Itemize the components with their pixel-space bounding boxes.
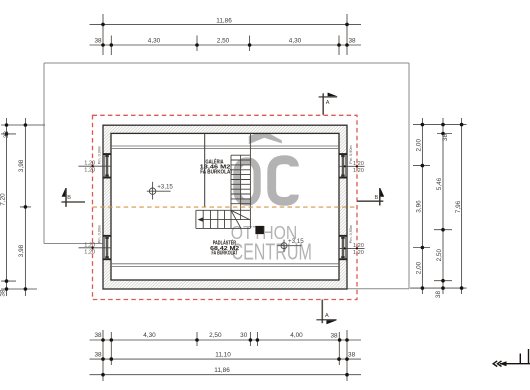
level mark padlaster (277, 240, 301, 252)
svg-text:A: A (325, 313, 329, 319)
svg-text:+3,15: +3,15 (288, 238, 304, 245)
dimension dots top (101, 23, 349, 47)
stair winder fan lines (231, 210, 250, 228)
svg-text:2,00: 2,00 (415, 261, 422, 274)
svg-text:1,20: 1,20 (353, 243, 364, 249)
svg-text:1,20: 1,20 (84, 243, 95, 249)
dimension texts bottom (94, 332, 355, 374)
svg-text:7,20: 7,20 (0, 193, 6, 206)
svg-text:Pm. 0,90m: Pm. 0,90m (98, 146, 102, 164)
ground floor outline bottom-left notch edge (44, 243, 104, 245)
stair lower flight left end (195, 210, 197, 228)
wall window openings white (102, 153, 347, 260)
svg-text:1,20: 1,20 (353, 250, 364, 256)
room label galeria (200, 157, 234, 175)
section marker A bottom (316, 300, 336, 325)
window right wall upper (339, 153, 347, 178)
dimension dots right (421, 123, 464, 290)
top dim chain line (90, 44, 362, 46)
stair bottom edge (196, 227, 251, 229)
svg-text:1,20: 1,20 (84, 249, 95, 255)
svg-text:B: B (67, 195, 71, 201)
bottom dim total line (90, 374, 362, 376)
room label padlaster (210, 238, 239, 256)
stair walking line vertical (240, 155, 242, 219)
svg-text:38: 38 (348, 37, 356, 44)
utility arrowhead (499, 361, 506, 366)
svg-text:38: 38 (94, 37, 102, 44)
window dim left upper (79, 161, 112, 174)
top extension verticals (103, 14, 347, 55)
stair winder top edge (196, 209, 251, 211)
svg-text:38: 38 (94, 351, 102, 358)
svg-text:11,86: 11,86 (214, 367, 230, 374)
headroom line top pair (111, 146, 339, 148)
svg-text:2,50: 2,50 (209, 332, 222, 339)
section marker A top (319, 93, 338, 115)
svg-text:38: 38 (348, 351, 356, 358)
svg-text:11,86: 11,86 (216, 18, 232, 25)
stair upper flight right stringer (249, 133, 251, 228)
svg-text:A: A (326, 100, 330, 106)
stair walking line horizontal (200, 219, 251, 221)
window left wall lower (103, 235, 111, 260)
svg-text:5,46: 5,46 (436, 177, 443, 190)
svg-text:2,00: 2,00 (415, 139, 422, 152)
svg-text:B: B (374, 195, 378, 201)
bottom dim chain line1 (90, 339, 362, 341)
svg-text:38: 38 (3, 131, 10, 139)
svg-text:FA BURKOLAT: FA BURKOLAT (212, 251, 238, 257)
level mark galeria (147, 182, 171, 200)
svg-text:7,96: 7,96 (455, 200, 462, 213)
exterior walls hatched (103, 125, 347, 289)
svg-text:3,98: 3,98 (18, 244, 25, 257)
svg-text:1,20: 1,20 (84, 161, 95, 167)
window dim left lower (79, 243, 112, 256)
headroom line bottom pair (111, 264, 339, 267)
svg-text:38: 38 (94, 332, 102, 339)
bottom extension verticals (103, 330, 347, 381)
svg-text:1,20: 1,20 (84, 168, 95, 174)
wall outlines (103, 125, 347, 289)
svg-text:3,98: 3,98 (18, 159, 25, 172)
watermark group (231, 131, 312, 265)
svg-text:1,20: 1,20 (353, 161, 364, 167)
dimension texts right rotated (415, 134, 462, 299)
watermark roof chevron (249, 131, 282, 145)
section marker B right (357, 188, 384, 206)
galeria edge partition (204, 133, 206, 207)
svg-text:38: 38 (330, 333, 338, 340)
right dim chain vertical 1 (421, 118, 423, 294)
svg-text:Pm. 0,90m: Pm. 0,90m (349, 145, 353, 163)
watermark letter C (272, 160, 295, 202)
watermark letter O (237, 161, 257, 202)
ground floor outline right edge (408, 63, 410, 289)
right dim chain vertical 3 (461, 118, 463, 294)
utility arrow bottom right (493, 349, 530, 367)
ground floor outline bottom-right edge (347, 288, 409, 290)
window dim right lower (339, 243, 365, 256)
ground floor outline below (thin gray) (44, 63, 409, 289)
svg-text:38: 38 (0, 289, 6, 297)
svg-text:4,30: 4,30 (289, 37, 302, 44)
svg-text:4,30: 4,30 (148, 37, 161, 44)
chimney black square (255, 226, 264, 234)
svg-text:2,50: 2,50 (436, 249, 443, 262)
left extension horizontals (1, 125, 45, 289)
ridge line orange dashed (93, 206, 358, 208)
svg-text:38: 38 (442, 134, 449, 142)
section marker B left (61, 188, 85, 207)
right extension horizontals (410, 125, 467, 289)
stair upper flight left stringer (230, 155, 232, 228)
svg-text:4,30: 4,30 (143, 332, 156, 339)
svg-text:Pm. 0,90m: Pm. 0,90m (349, 225, 353, 243)
svg-text:+3,15: +3,15 (157, 184, 173, 191)
eaves overhang red dashed rectangle (93, 115, 358, 299)
stair direction arrowhead (198, 217, 204, 222)
svg-text:4,00: 4,00 (290, 332, 303, 339)
window right wall lower (339, 235, 347, 260)
dimension texts top (94, 18, 356, 45)
window left wall upper (103, 153, 111, 178)
svg-text:11,10: 11,10 (215, 351, 231, 358)
bottom dim chain line2 (90, 358, 362, 360)
dimension dots left (5, 123, 28, 291)
svg-text:3,96: 3,96 (415, 200, 422, 213)
svg-text:2,50: 2,50 (217, 37, 230, 44)
right dim chain vertical 2 (442, 118, 444, 294)
top dim total line (90, 23, 362, 25)
ground floor outline top edge (44, 62, 409, 64)
svg-text:30: 30 (240, 332, 248, 339)
stair lower flight treads (203, 210, 224, 228)
stair group (196, 133, 251, 228)
ground floor outline left edge (43, 63, 45, 244)
svg-text:Pm. 0,90m: Pm. 0,90m (98, 225, 102, 243)
window dim right upper (339, 161, 365, 174)
svg-text:FA BURKOLAT: FA BURKOLAT (200, 170, 233, 176)
svg-text:38: 38 (435, 291, 442, 299)
left dim chain vertical outer (6, 118, 8, 296)
left dim chain vertical inner (24, 118, 26, 296)
dimension dots bottom (101, 338, 349, 376)
stair treads upper flight (231, 155, 250, 204)
dimension texts left rotated (0, 131, 25, 297)
svg-text:1,20: 1,20 (353, 168, 364, 174)
